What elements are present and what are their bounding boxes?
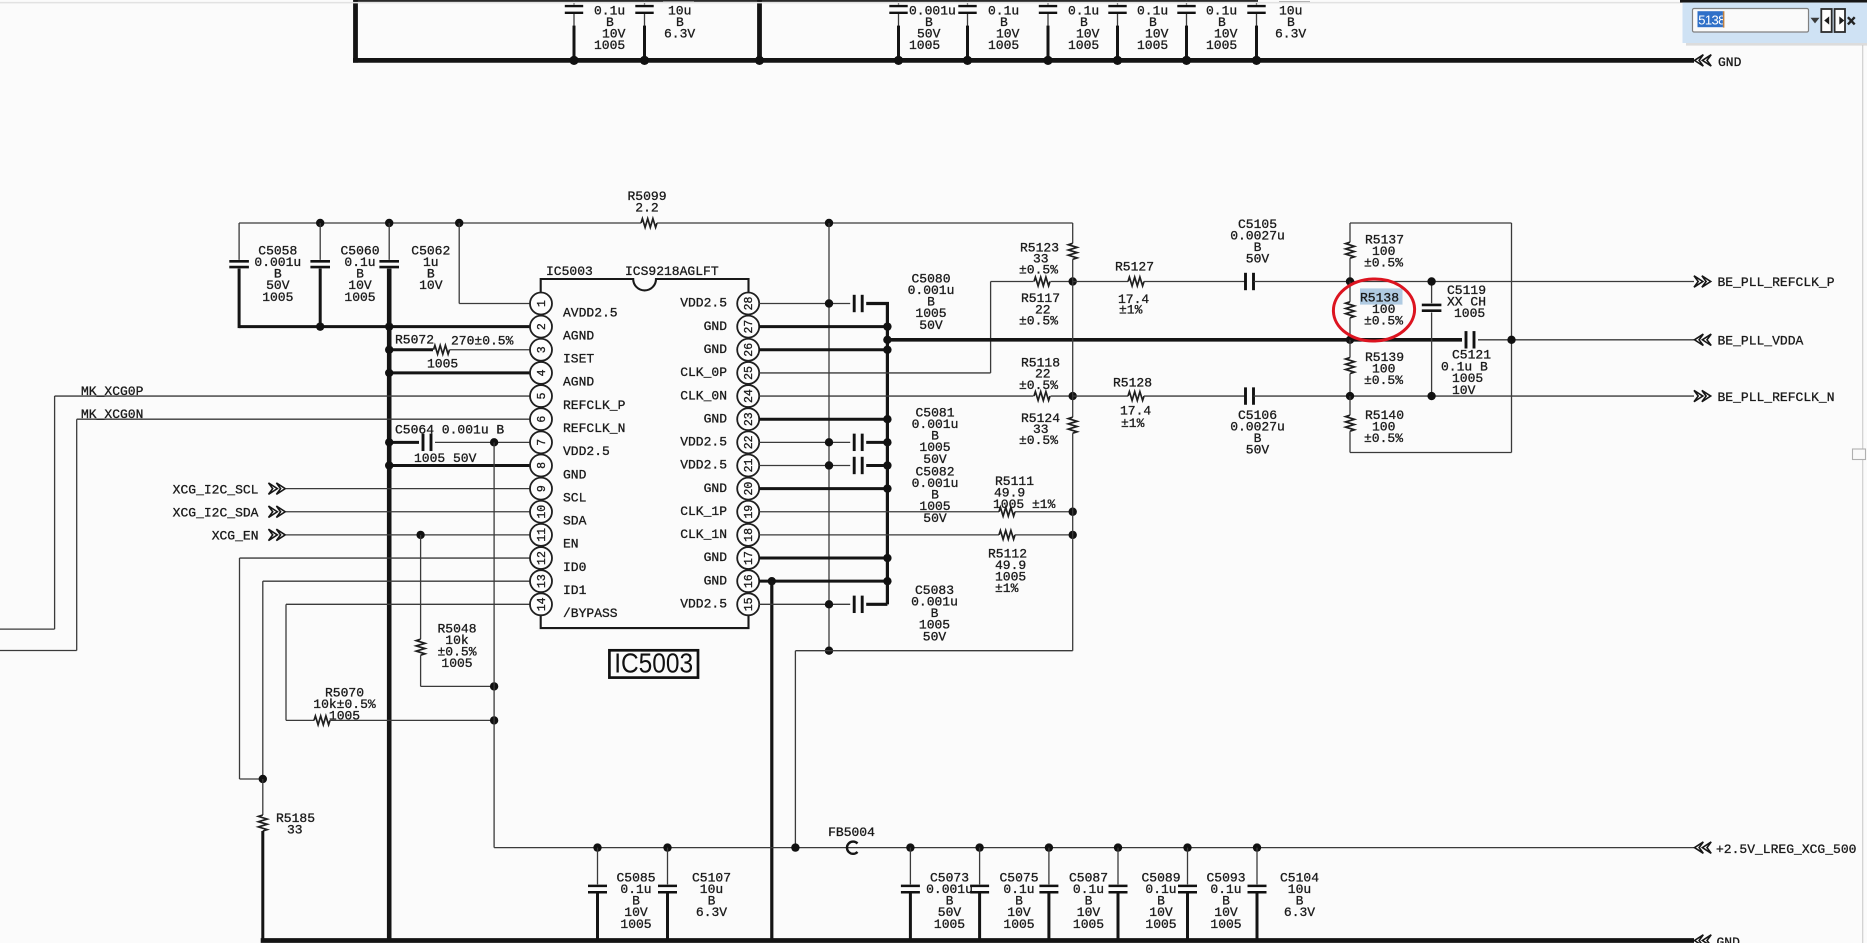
svg-text:16: 16 bbox=[743, 574, 756, 588]
svg-text:GND: GND bbox=[563, 467, 587, 482]
capacitor C5085 bbox=[593, 843, 601, 851]
wire pin12 ID0 bbox=[240, 557, 531, 559]
wire pin17 GND thick bbox=[759, 557, 888, 560]
next button bbox=[1835, 9, 1845, 32]
svg-text:ID0: ID0 bbox=[563, 560, 586, 575]
svg-text:GND: GND bbox=[704, 342, 728, 357]
svg-text:22: 22 bbox=[743, 435, 756, 449]
junction rail-C5062 bbox=[385, 219, 393, 227]
svg-text:VDD2.5: VDD2.5 bbox=[680, 458, 727, 473]
capacitor on top bus at x=1256.5 bbox=[1256, 0, 1258, 5]
svg-text:10: 10 bbox=[536, 505, 549, 519]
svg-text:25: 25 bbox=[743, 366, 756, 380]
svg-text:GND: GND bbox=[704, 411, 728, 426]
svg-text:24: 24 bbox=[743, 389, 756, 403]
svg-text:±1%: ±1% bbox=[1121, 416, 1145, 431]
svg-text:1005: 1005 bbox=[262, 290, 293, 305]
capacitor on top bus at x=644.5 bbox=[644, 0, 646, 5]
svg-text:19: 19 bbox=[743, 505, 756, 519]
svg-text:12: 12 bbox=[536, 551, 549, 565]
capacitor C5119 bbox=[1431, 282, 1433, 304]
svg-text:17: 17 bbox=[743, 551, 756, 565]
resistor R5124 bbox=[1068, 417, 1077, 433]
wire ladder box top bbox=[1350, 222, 1512, 224]
wire cut-off top rail bbox=[354, 0, 1258, 2]
svg-text:AGND: AGND bbox=[563, 328, 594, 343]
wire BE_PLL_VDDA thick bbox=[887, 338, 1462, 342]
resistor R5123 bbox=[1068, 243, 1077, 259]
pin 7 circle bbox=[530, 431, 552, 453]
pin 1 circle bbox=[530, 293, 552, 315]
close button x bbox=[1848, 17, 1855, 24]
port XCG_EN bbox=[269, 529, 286, 540]
svg-text:±0.5%: ±0.5% bbox=[1019, 314, 1058, 329]
svg-text:50V: 50V bbox=[923, 629, 947, 644]
svg-text:±0.5%: ±0.5% bbox=[1364, 256, 1403, 271]
pin 14 circle bbox=[530, 593, 552, 615]
svg-text:±0.5%: ±0.5% bbox=[1019, 378, 1058, 393]
capacitor on top bus at x=1048 bbox=[1047, 0, 1049, 5]
resistor R5112 bbox=[999, 531, 1015, 540]
wire y=650.7 link bbox=[795, 650, 1072, 652]
pin 17 circle bbox=[737, 547, 759, 569]
svg-text:2: 2 bbox=[536, 323, 549, 330]
svg-text:AVDD2.5: AVDD2.5 bbox=[563, 305, 618, 320]
pin 3 circle bbox=[530, 339, 552, 361]
wire pin25 CLK_0P bbox=[759, 372, 991, 374]
svg-text:23: 23 bbox=[743, 412, 756, 426]
wire MK_XCG0P to pin5 REFCLK_P bbox=[55, 395, 531, 397]
resistor R5127 bbox=[1128, 277, 1144, 286]
wire bottom GND bus bbox=[261, 938, 1694, 943]
wire bypass column x829 bbox=[828, 223, 830, 651]
svg-text:6.3V: 6.3V bbox=[696, 905, 727, 920]
svg-text:CLK_0P: CLK_0P bbox=[680, 365, 727, 380]
pin 22 circle bbox=[737, 431, 759, 453]
wire pin2 AGND thick bbox=[239, 325, 530, 328]
wire main GND bus vertical bbox=[387, 269, 392, 941]
port BE_PLL_VDDA bbox=[1695, 334, 1712, 345]
svg-text:1005 ±1%: 1005 ±1% bbox=[993, 497, 1056, 512]
capacitor C5060 bbox=[319, 223, 321, 260]
resistor R5070 bbox=[286, 719, 314, 721]
svg-text:IC5003: IC5003 bbox=[546, 264, 593, 279]
svg-text:50V: 50V bbox=[1246, 443, 1270, 458]
svg-text:1005: 1005 bbox=[427, 357, 458, 372]
wire pin14 /BYPASS bbox=[286, 603, 530, 605]
wire pin15 VDD2.5 bbox=[759, 603, 850, 605]
junction bypass column bottom bbox=[825, 647, 833, 655]
wire ladder box bottom bbox=[1350, 452, 1512, 454]
search toolbar panel bbox=[1680, 0, 1867, 3]
svg-text:33: 33 bbox=[287, 823, 303, 838]
svg-text:26: 26 bbox=[743, 343, 756, 357]
wire drop x=795.4 bbox=[794, 651, 796, 848]
svg-text:1005: 1005 bbox=[1206, 38, 1237, 53]
pin 25 circle bbox=[737, 362, 759, 384]
svg-text:13: 13 bbox=[536, 574, 549, 588]
wire pin28 VDD2.5 bbox=[759, 303, 850, 305]
resistor R5072 bbox=[389, 348, 433, 351]
svg-text:1: 1 bbox=[536, 300, 549, 307]
svg-text:R5127: R5127 bbox=[1115, 260, 1154, 275]
svg-text:1005: 1005 bbox=[329, 709, 360, 724]
svg-text:VDD2.5: VDD2.5 bbox=[680, 296, 727, 311]
pin 16 circle bbox=[737, 570, 759, 592]
resistor R5137 bbox=[1349, 223, 1351, 242]
svg-text:1005: 1005 bbox=[909, 38, 940, 53]
svg-text:R5072: R5072 bbox=[395, 333, 434, 348]
wire pin16 GND thick bbox=[759, 580, 888, 583]
capacitor C5087 bbox=[1045, 843, 1053, 851]
svg-text:AGND: AGND bbox=[563, 375, 594, 390]
svg-text:6.3V: 6.3V bbox=[1284, 905, 1315, 920]
pin 28 circle bbox=[737, 293, 759, 315]
wire REFCLK_P net bbox=[1073, 281, 1128, 283]
capacitor C5064 bbox=[389, 441, 419, 444]
pin 19 circle bbox=[737, 501, 759, 523]
svg-text:GND: GND bbox=[1718, 55, 1742, 70]
port XCG_I2C_SCL bbox=[269, 483, 286, 494]
svg-text:1005 50V: 1005 50V bbox=[414, 451, 477, 466]
svg-text:1005: 1005 bbox=[441, 656, 472, 671]
svg-text:IC5003: IC5003 bbox=[614, 648, 693, 679]
svg-text:5138: 5138 bbox=[1698, 12, 1725, 27]
svg-text:/BYPASS: /BYPASS bbox=[563, 606, 618, 621]
svg-text:6.3V: 6.3V bbox=[664, 26, 695, 41]
resistor R5117 bbox=[1034, 277, 1050, 286]
svg-text:EN: EN bbox=[563, 537, 579, 552]
capacitor C5062 bbox=[388, 223, 390, 260]
pin 20 circle bbox=[737, 478, 759, 500]
capacitor C5075 bbox=[975, 843, 983, 851]
svg-text:±0.5%: ±0.5% bbox=[1019, 263, 1058, 278]
svg-text:14: 14 bbox=[536, 597, 549, 611]
resistor R5139 bbox=[1349, 340, 1351, 358]
svg-text:SCL: SCL bbox=[563, 490, 586, 505]
junction VDDA on GND column bbox=[883, 336, 891, 344]
svg-text:±0.5%: ±0.5% bbox=[1364, 373, 1403, 388]
svg-text:1005: 1005 bbox=[594, 38, 625, 53]
svg-text:VDD2.5: VDD2.5 bbox=[680, 435, 727, 450]
svg-text:4: 4 bbox=[536, 369, 549, 376]
svg-text:50V: 50V bbox=[923, 511, 947, 526]
pin 26 circle bbox=[737, 339, 759, 361]
capacitor C5073 bbox=[906, 843, 914, 851]
svg-text:9: 9 bbox=[536, 485, 549, 492]
junction VDDA/ladder right bbox=[1507, 336, 1515, 344]
svg-text:1005: 1005 bbox=[1210, 917, 1241, 932]
wire pin26 GND thick bbox=[759, 348, 888, 351]
junction rail x795 bbox=[791, 843, 799, 851]
resistor R5111 bbox=[999, 507, 1015, 516]
wire pin22 VDD2.5 bbox=[759, 441, 850, 443]
capacitor C5121 bbox=[1466, 331, 1474, 348]
pin 13 circle bbox=[530, 570, 552, 592]
junction on top bus bbox=[755, 56, 764, 65]
capacitor C5080 bbox=[854, 295, 862, 312]
search text 5138 selected bbox=[1698, 11, 1723, 27]
wire pin1 AVDD2.5 bbox=[458, 223, 460, 304]
pin 4 circle bbox=[530, 362, 552, 384]
previous button bbox=[1821, 9, 1831, 32]
wire pin8 GND thick bbox=[389, 464, 530, 467]
resistor R5048 bbox=[420, 535, 422, 639]
capacitor C5105 bbox=[1246, 273, 1254, 290]
svg-text:+2.5V_LREG_XCG_500: +2.5V_LREG_XCG_500 bbox=[1716, 842, 1856, 857]
pin 10 circle bbox=[530, 501, 552, 523]
svg-text:BE_PLL_REFCLK_N: BE_PLL_REFCLK_N bbox=[1718, 390, 1835, 405]
search input field bbox=[1693, 9, 1809, 33]
pin 18 circle bbox=[737, 524, 759, 546]
svg-text:270±0.5%: 270±0.5% bbox=[451, 334, 514, 349]
capacitor C5083 bbox=[854, 596, 862, 613]
text remnant above 10u cap bbox=[663, 1, 694, 3]
wire top GND bus horizontal bbox=[353, 58, 1694, 63]
svg-text:1005: 1005 bbox=[1073, 917, 1104, 932]
wire pin18 CLK_1N bbox=[759, 534, 999, 536]
wire pin20 GND thick bbox=[759, 487, 888, 490]
pin 24 circle bbox=[737, 385, 759, 407]
wire pin23 GND thick bbox=[759, 418, 888, 421]
svg-text:50V: 50V bbox=[1246, 252, 1270, 267]
wire MK_XCG0N to pin6 REFCLK_N bbox=[77, 418, 531, 420]
svg-text:21: 21 bbox=[743, 458, 756, 472]
wire pin13 ID1 bbox=[263, 580, 530, 582]
pin 21 circle bbox=[737, 454, 759, 476]
capacitor C5104 bbox=[1253, 843, 1261, 851]
wire pin27 GND thick bbox=[759, 325, 888, 328]
svg-text:1005: 1005 bbox=[1003, 917, 1034, 932]
svg-text:BE_PLL_REFCLK_P: BE_PLL_REFCLK_P bbox=[1718, 275, 1835, 290]
capacitor on top bus at x=1186.5 bbox=[1186, 0, 1188, 5]
svg-text:±0.5%: ±0.5% bbox=[1019, 433, 1058, 448]
svg-text:XCG_EN: XCG_EN bbox=[212, 529, 259, 544]
port GND top right bbox=[1695, 55, 1712, 66]
svg-text:REFCLK_P: REFCLK_P bbox=[563, 398, 626, 413]
wire AVDD rail left segment bbox=[239, 222, 641, 224]
wire pin4 AGND thick bbox=[389, 371, 530, 374]
port BE_PLL_REFCLK_N bbox=[1694, 390, 1711, 401]
pin 2 circle bbox=[530, 316, 552, 338]
svg-text:27: 27 bbox=[743, 320, 756, 334]
svg-text:SDA: SDA bbox=[563, 514, 587, 529]
capacitor C5106 bbox=[1246, 387, 1254, 404]
capacitor on top bus at x=898.5 bbox=[898, 0, 900, 5]
wire pin16 GND drop to bottom bus bbox=[770, 581, 773, 940]
svg-text:1005: 1005 bbox=[1068, 38, 1099, 53]
capacitor C5107 bbox=[663, 843, 671, 851]
dropdown arrow bbox=[1811, 18, 1820, 24]
svg-text:±0.5%: ±0.5% bbox=[1364, 314, 1403, 329]
svg-text:10V: 10V bbox=[419, 278, 443, 293]
svg-text:28: 28 bbox=[743, 297, 756, 311]
resistor R5118 bbox=[1034, 392, 1050, 401]
pin 12 circle bbox=[530, 547, 552, 569]
capacitor on top bus at x=967.5 bbox=[967, 0, 969, 5]
ferrite bead FB5004 bbox=[847, 842, 858, 854]
svg-text:XCG_I2C_SCL: XCG_I2C_SCL bbox=[173, 482, 259, 497]
svg-text:8: 8 bbox=[536, 462, 549, 469]
wire XCG_EN bbox=[286, 534, 531, 536]
svg-text:GND: GND bbox=[704, 550, 728, 565]
svg-text:1005: 1005 bbox=[934, 917, 965, 932]
svg-text:15: 15 bbox=[743, 597, 756, 611]
svg-text:1005: 1005 bbox=[1145, 917, 1176, 932]
junction CLK_0N node bbox=[1069, 392, 1077, 400]
svg-text:ID1: ID1 bbox=[563, 583, 587, 598]
resistor R5185 bbox=[262, 779, 264, 815]
pin 11 circle bbox=[530, 524, 552, 546]
svg-text:C5064 0.001u B: C5064 0.001u B bbox=[395, 423, 504, 438]
wire AVDD rail right segment bbox=[657, 222, 1073, 224]
pin 9 circle bbox=[530, 478, 552, 500]
text remnant above last 10u cap bbox=[1279, 1, 1310, 3]
svg-text:XCG_I2C_SDA: XCG_I2C_SDA bbox=[173, 506, 259, 521]
port BE_PLL_REFCLK_P bbox=[1694, 276, 1711, 287]
wire pin24 CLK_0N bbox=[759, 395, 1034, 397]
wire pin21 VDD2.5 bbox=[759, 464, 850, 466]
svg-text:ISET: ISET bbox=[563, 352, 594, 367]
port XCG_I2C_SDA bbox=[269, 506, 286, 517]
pin 27 circle bbox=[737, 316, 759, 338]
port +2.5V_LREG_XCG_500 bbox=[1695, 842, 1712, 853]
svg-text:6: 6 bbox=[536, 416, 549, 423]
svg-text:1005: 1005 bbox=[1454, 306, 1485, 321]
svg-text:CLK_1N: CLK_1N bbox=[680, 527, 727, 542]
wire XCG_I2C_SDA bbox=[286, 511, 531, 513]
svg-text:ICS9218AGLFT: ICS9218AGLFT bbox=[625, 264, 719, 279]
port GND bottom right bbox=[1695, 935, 1712, 943]
svg-text:MK_XCG0N: MK_XCG0N bbox=[81, 407, 143, 422]
capacitor on top bus at x=574 bbox=[573, 0, 575, 5]
svg-text:±0.5%: ±0.5% bbox=[1364, 431, 1403, 446]
svg-text:6.3V: 6.3V bbox=[1275, 26, 1306, 41]
resistor R5099 bbox=[641, 219, 657, 228]
junction rail-bypass column bbox=[825, 219, 833, 227]
svg-text:CLK_1P: CLK_1P bbox=[680, 504, 727, 519]
pin 15 circle bbox=[737, 593, 759, 615]
svg-text:FB5004: FB5004 bbox=[828, 825, 875, 840]
scrollbar right edge bbox=[1862, 45, 1864, 943]
pin 6 circle bbox=[530, 408, 552, 430]
svg-text:1005: 1005 bbox=[1137, 38, 1168, 53]
label IC5003 boxed bbox=[609, 650, 698, 677]
wire XCG_I2C_SCL bbox=[286, 488, 531, 490]
svg-text:1005: 1005 bbox=[344, 290, 375, 305]
window top edge strip bbox=[0, 2, 1680, 4]
junction CLK_0P node bbox=[1069, 277, 1077, 285]
junction rail-pin1 bbox=[455, 219, 463, 227]
svg-text:BE_PLL_VDDA: BE_PLL_VDDA bbox=[1718, 334, 1804, 349]
svg-text:GND: GND bbox=[1717, 935, 1741, 943]
svg-text:20: 20 bbox=[743, 482, 756, 496]
svg-text:50V: 50V bbox=[919, 318, 943, 333]
resistor R5138 bbox=[1349, 282, 1351, 302]
svg-text:7: 7 bbox=[536, 439, 549, 446]
svg-text:11: 11 bbox=[536, 528, 549, 542]
svg-text:CLK_0N: CLK_0N bbox=[680, 388, 727, 403]
svg-text:GND: GND bbox=[704, 573, 728, 588]
wire top bus mid vertical bbox=[757, 0, 762, 63]
svg-text:R5128: R5128 bbox=[1113, 376, 1152, 391]
svg-text:3: 3 bbox=[536, 346, 549, 353]
wire top bus left vertical bbox=[353, 0, 358, 63]
annotation red ellipse around R5138 bbox=[1332, 278, 1415, 343]
svg-text:1005: 1005 bbox=[988, 38, 1019, 53]
pin 8 circle bbox=[530, 454, 552, 476]
capacitor on pin22 bbox=[854, 434, 862, 451]
capacitor on pin21 bbox=[854, 457, 862, 474]
capacitor C5058 bbox=[238, 223, 240, 260]
svg-text:REFCLK_N: REFCLK_N bbox=[563, 421, 625, 436]
resistor R5140 bbox=[1349, 396, 1351, 415]
capacitor C5089 bbox=[1114, 843, 1122, 851]
svg-text:±1%: ±1% bbox=[995, 581, 1019, 596]
wire +2.5V_LREG_XCG_500 rail bbox=[494, 847, 1694, 849]
wire pin19 CLK_1P bbox=[759, 511, 999, 513]
svg-text:18: 18 bbox=[743, 528, 756, 542]
junction XCG_EN / R5048 bbox=[416, 531, 424, 539]
op-amp IC5003 body bbox=[541, 279, 749, 628]
pin 23 circle bbox=[737, 408, 759, 430]
capacitor C5093 bbox=[1183, 843, 1191, 851]
pin 5 circle bbox=[530, 385, 552, 407]
wire ladder box right bbox=[1511, 223, 1513, 453]
wire termination column upper bbox=[1072, 223, 1074, 243]
svg-text:MK_XCG0P: MK_XCG0P bbox=[81, 384, 144, 399]
svg-text:2.2: 2.2 bbox=[635, 201, 658, 216]
svg-text:±1%: ±1% bbox=[1119, 303, 1143, 318]
svg-text:1005: 1005 bbox=[620, 917, 651, 932]
svg-text:5: 5 bbox=[536, 393, 549, 400]
svg-text:GND: GND bbox=[704, 481, 728, 496]
junction ID0/ID1/R5185 bbox=[259, 775, 267, 783]
capacitor on top bus at x=1117.5 bbox=[1117, 0, 1119, 5]
svg-text:VDD2.5: VDD2.5 bbox=[680, 597, 727, 612]
svg-text:GND: GND bbox=[704, 319, 728, 334]
svg-text:VDD2.5: VDD2.5 bbox=[563, 444, 610, 459]
resistor R5128 bbox=[1128, 392, 1144, 401]
wire REFCLK_N net bbox=[1073, 395, 1128, 397]
wire node column x494 bbox=[493, 442, 495, 847]
junction rail-C5060 bbox=[316, 219, 324, 227]
